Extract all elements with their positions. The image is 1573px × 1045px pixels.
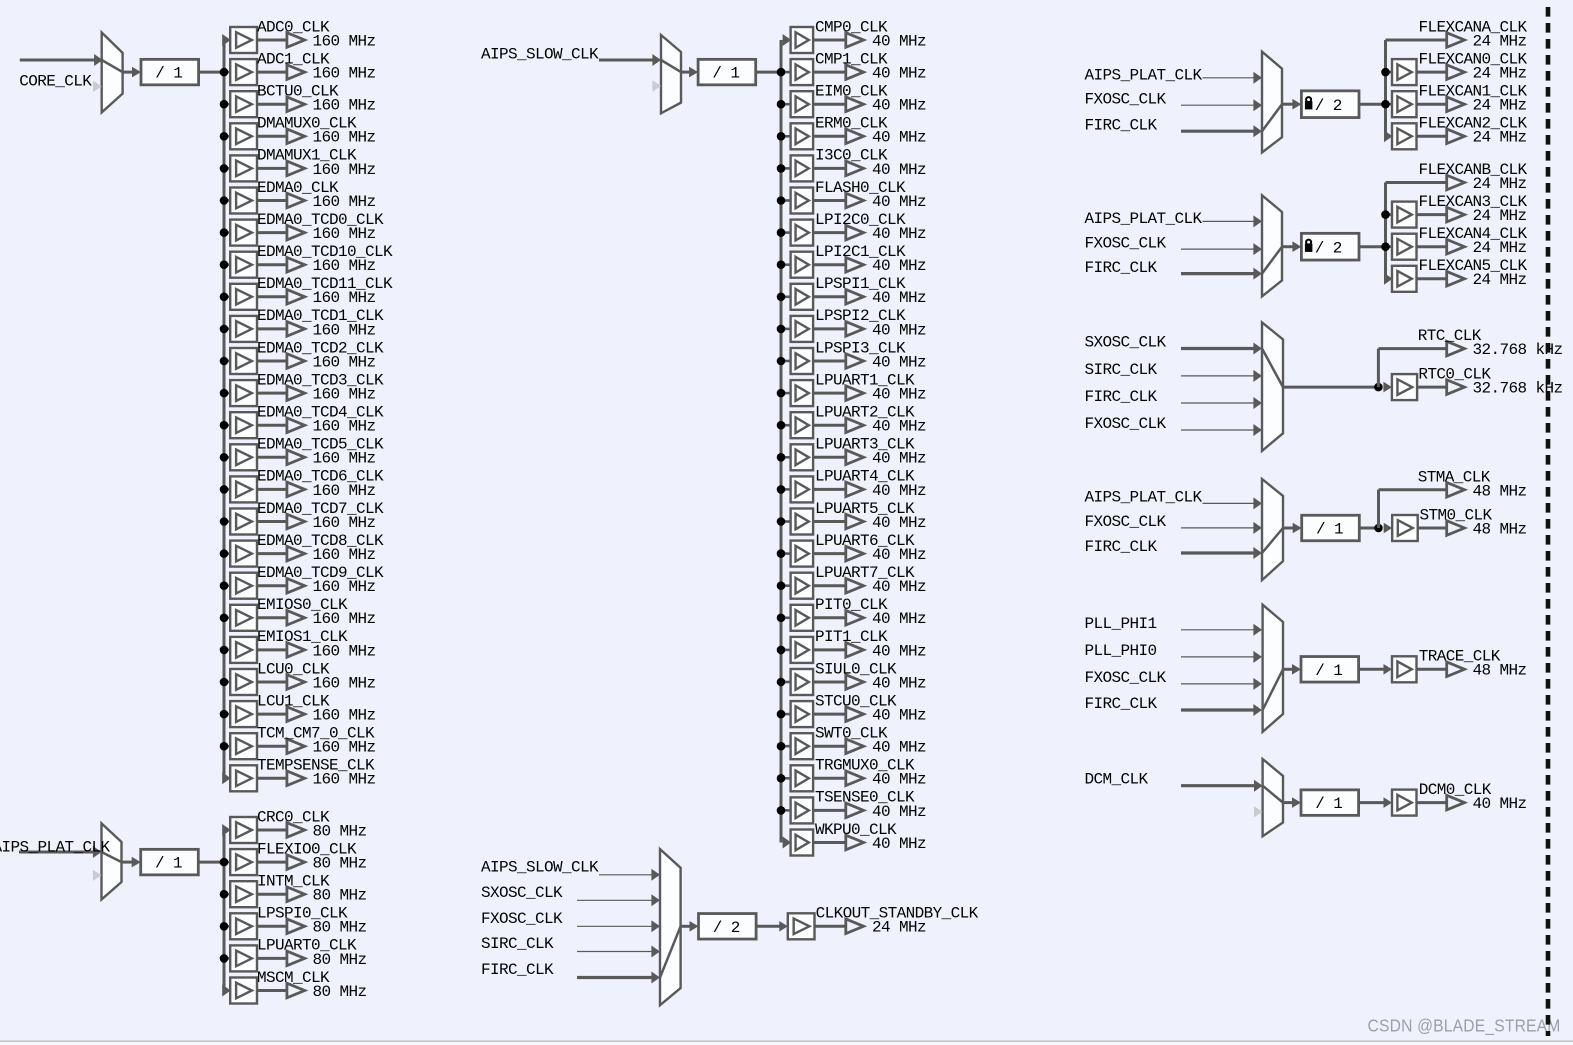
svg-text:FIRC_CLK: FIRC_CLK xyxy=(1085,695,1158,713)
svg-text:160 MHz: 160 MHz xyxy=(313,546,376,564)
svg-text:40 MHz: 40 MHz xyxy=(872,771,926,789)
svg-text:48 MHz: 48 MHz xyxy=(1473,520,1527,538)
svg-text:24 MHz: 24 MHz xyxy=(1473,32,1527,50)
svg-text:40 MHz: 40 MHz xyxy=(872,578,926,596)
svg-text:FIRC_CLK: FIRC_CLK xyxy=(481,961,554,979)
svg-text:40 MHz: 40 MHz xyxy=(872,642,926,660)
svg-text:160 MHz: 160 MHz xyxy=(313,225,376,243)
svg-text:FIRC_CLK: FIRC_CLK xyxy=(1085,117,1158,135)
svg-text:40 MHz: 40 MHz xyxy=(872,32,926,50)
svg-text:FXOSC_CLK: FXOSC_CLK xyxy=(1085,235,1167,253)
svg-text:160 MHz: 160 MHz xyxy=(313,386,376,404)
svg-text:160 MHz: 160 MHz xyxy=(313,578,376,596)
svg-text:40 MHz: 40 MHz xyxy=(872,161,926,179)
svg-text:SXOSC_CLK: SXOSC_CLK xyxy=(481,884,563,902)
svg-text:/ 1: / 1 xyxy=(1315,662,1342,680)
svg-text:/ 1: / 1 xyxy=(1316,521,1343,539)
svg-text:160 MHz: 160 MHz xyxy=(313,289,376,307)
svg-text:160 MHz: 160 MHz xyxy=(313,65,376,83)
svg-text:FIRC_CLK: FIRC_CLK xyxy=(1085,259,1158,277)
svg-text:/ 2: / 2 xyxy=(1315,239,1342,257)
svg-text:40 MHz: 40 MHz xyxy=(872,97,926,115)
svg-text:80 MHz: 80 MHz xyxy=(313,855,367,873)
svg-text:40 MHz: 40 MHz xyxy=(872,450,926,468)
svg-text:80 MHz: 80 MHz xyxy=(313,951,367,969)
svg-text:AIPS_PLAT_CLK: AIPS_PLAT_CLK xyxy=(1085,67,1203,85)
svg-text:CSDN @BLADE_STREAM: CSDN @BLADE_STREAM xyxy=(1368,1016,1561,1036)
svg-text:FXOSC_CLK: FXOSC_CLK xyxy=(1085,513,1167,531)
svg-text:/ 1: / 1 xyxy=(155,855,182,873)
svg-text:160 MHz: 160 MHz xyxy=(313,674,376,692)
svg-text:80 MHz: 80 MHz xyxy=(313,822,367,840)
svg-text:/ 1: / 1 xyxy=(1315,795,1342,813)
svg-text:40 MHz: 40 MHz xyxy=(872,193,926,211)
svg-text:SXOSC_CLK: SXOSC_CLK xyxy=(1085,334,1167,352)
svg-text:40 MHz: 40 MHz xyxy=(872,610,926,628)
svg-text:160 MHz: 160 MHz xyxy=(313,739,376,757)
svg-text:40 MHz: 40 MHz xyxy=(872,321,926,339)
svg-text:24 MHz: 24 MHz xyxy=(1473,271,1527,289)
svg-text:160 MHz: 160 MHz xyxy=(313,257,376,275)
svg-text:AIPS_PLAT_CLK: AIPS_PLAT_CLK xyxy=(0,838,111,856)
svg-text:40 MHz: 40 MHz xyxy=(872,418,926,436)
svg-text:40 MHz: 40 MHz xyxy=(872,803,926,821)
svg-text:40 MHz: 40 MHz xyxy=(872,707,926,725)
svg-text:80 MHz: 80 MHz xyxy=(313,919,367,937)
svg-text:DCM_CLK: DCM_CLK xyxy=(1085,771,1149,789)
svg-text:24 MHz: 24 MHz xyxy=(1473,129,1527,147)
svg-text:160 MHz: 160 MHz xyxy=(313,514,376,532)
svg-text:FXOSC_CLK: FXOSC_CLK xyxy=(1085,415,1167,433)
svg-text:24 MHz: 24 MHz xyxy=(1473,207,1527,225)
svg-text:/ 2: / 2 xyxy=(713,919,740,937)
svg-text:40 MHz: 40 MHz xyxy=(872,739,926,757)
svg-text:AIPS_PLAT_CLK: AIPS_PLAT_CLK xyxy=(1085,488,1203,506)
svg-text:24 MHz: 24 MHz xyxy=(1473,175,1527,193)
svg-text:160 MHz: 160 MHz xyxy=(313,450,376,468)
svg-text:160 MHz: 160 MHz xyxy=(313,353,376,371)
svg-text:80 MHz: 80 MHz xyxy=(313,983,367,1001)
svg-text:160 MHz: 160 MHz xyxy=(313,610,376,628)
svg-text:AIPS_SLOW_CLK: AIPS_SLOW_CLK xyxy=(481,858,599,876)
svg-text:160 MHz: 160 MHz xyxy=(313,707,376,725)
svg-text:FIRC_CLK: FIRC_CLK xyxy=(1085,538,1158,556)
svg-text:SIRC_CLK: SIRC_CLK xyxy=(481,935,554,953)
svg-text:40 MHz: 40 MHz xyxy=(872,225,926,243)
svg-text:160 MHz: 160 MHz xyxy=(313,129,376,147)
svg-text:40 MHz: 40 MHz xyxy=(872,289,926,307)
svg-text:24 MHz: 24 MHz xyxy=(1473,65,1527,83)
svg-text:24 MHz: 24 MHz xyxy=(1473,97,1527,115)
svg-text:40 MHz: 40 MHz xyxy=(1473,795,1527,813)
svg-text:FIRC_CLK: FIRC_CLK xyxy=(1085,388,1158,406)
svg-text:/ 1: / 1 xyxy=(712,65,739,83)
svg-text:160 MHz: 160 MHz xyxy=(313,32,376,50)
svg-text:CORE_CLK: CORE_CLK xyxy=(19,72,92,90)
svg-text:48 MHz: 48 MHz xyxy=(1473,482,1527,500)
svg-text:FXOSC_CLK: FXOSC_CLK xyxy=(1085,91,1167,109)
svg-text:/ 2: / 2 xyxy=(1315,97,1342,115)
svg-text:FXOSC_CLK: FXOSC_CLK xyxy=(481,910,563,928)
svg-text:160 MHz: 160 MHz xyxy=(313,321,376,339)
svg-text:40 MHz: 40 MHz xyxy=(872,514,926,532)
svg-text:160 MHz: 160 MHz xyxy=(313,418,376,436)
svg-text:40 MHz: 40 MHz xyxy=(872,674,926,692)
svg-text:40 MHz: 40 MHz xyxy=(872,546,926,564)
svg-text:48 MHz: 48 MHz xyxy=(1473,662,1527,680)
svg-text:160 MHz: 160 MHz xyxy=(313,771,376,789)
svg-text:40 MHz: 40 MHz xyxy=(872,386,926,404)
svg-text:40 MHz: 40 MHz xyxy=(872,835,926,853)
svg-text:/ 1: / 1 xyxy=(155,65,182,83)
svg-text:24 MHz: 24 MHz xyxy=(1473,239,1527,257)
svg-text:40 MHz: 40 MHz xyxy=(872,129,926,147)
svg-text:PLL_PHI1: PLL_PHI1 xyxy=(1085,615,1157,633)
svg-text:40 MHz: 40 MHz xyxy=(872,257,926,275)
svg-text:FXOSC_CLK: FXOSC_CLK xyxy=(1085,669,1167,687)
svg-text:40 MHz: 40 MHz xyxy=(872,65,926,83)
svg-text:80 MHz: 80 MHz xyxy=(313,887,367,905)
svg-text:160 MHz: 160 MHz xyxy=(313,642,376,660)
svg-text:40 MHz: 40 MHz xyxy=(872,353,926,371)
svg-text:160 MHz: 160 MHz xyxy=(313,482,376,500)
svg-text:SIRC_CLK: SIRC_CLK xyxy=(1085,361,1158,379)
svg-text:160 MHz: 160 MHz xyxy=(313,97,376,115)
svg-text:40 MHz: 40 MHz xyxy=(872,482,926,500)
svg-text:24 MHz: 24 MHz xyxy=(872,919,926,937)
svg-text:160 MHz: 160 MHz xyxy=(313,193,376,211)
svg-text:160 MHz: 160 MHz xyxy=(313,161,376,179)
svg-text:AIPS_SLOW_CLK: AIPS_SLOW_CLK xyxy=(481,46,599,64)
svg-text:PLL_PHI0: PLL_PHI0 xyxy=(1085,642,1157,660)
svg-text:AIPS_PLAT_CLK: AIPS_PLAT_CLK xyxy=(1085,210,1203,228)
